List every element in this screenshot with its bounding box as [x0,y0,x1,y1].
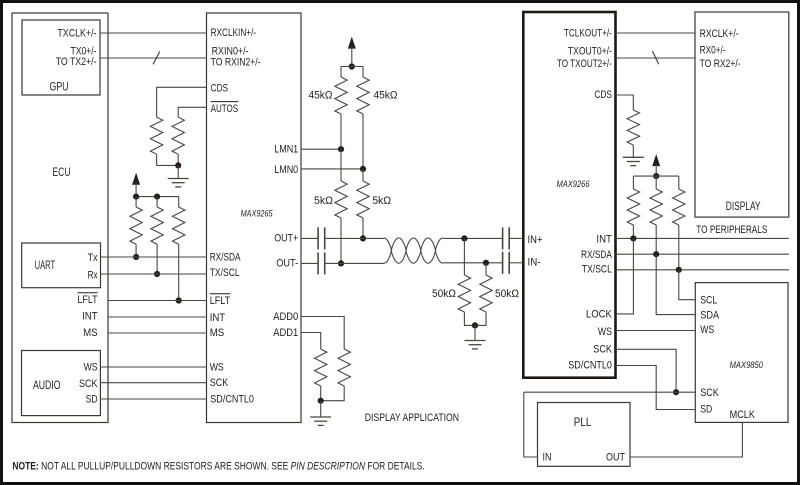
svg-text:DISPLAY APPLICATION: DISPLAY APPLICATION [365,412,459,424]
pin TXOUT0+/- TO TXOUT2+/- [557,46,612,71]
wire LFLT [108,300,207,302]
svg-text:LFLT: LFLT [77,294,97,306]
svg-text:MAX9266: MAX9266 [557,179,591,189]
wire SCK [100,382,206,384]
wire MS [108,332,207,334]
wire CDS to pulldown [157,87,207,117]
svg-text:MS: MS [210,327,225,339]
resistor ADD1 pulldown [315,349,327,401]
wire ADD0 to pulldown [301,317,344,350]
junction INT pullup/LOCK [630,235,636,241]
wire to ground G2 [474,325,476,340]
svg-text:OUT-: OUT- [276,258,298,270]
svg-text:MAX9265: MAX9265 [241,208,274,218]
junction 50k common [472,322,478,328]
wire ground rail CDS/AUTOS [157,164,179,166]
svg-text:RXIN0+/-: RXIN0+/- [212,45,249,57]
junction LFLT pullup on LFLT wire [176,297,182,303]
wire INT to peripherals [616,237,789,239]
wire INT [108,316,207,318]
wire PLL OUT to MCLK [630,422,742,457]
wire OUT+ to coupling cap [301,237,318,239]
wire TXOUT0-TXOUT2 bus to RX0-RX2 [616,51,696,64]
svg-text:TO RX2+/-: TO RX2+/- [700,58,741,70]
svg-text:SCK: SCK [79,378,98,390]
ground G1 [168,179,189,187]
wire twisted pair to IN+ cap [443,237,503,239]
pin AUTOS [211,102,239,115]
svg-text:50kΩ: 50kΩ [432,288,456,300]
pin TX0+/- TO TX2+/- [56,45,97,67]
svg-text:GPU: GPU [50,81,69,93]
junction LMN1 at 45k left [338,146,344,152]
svg-text:SCK: SCK [700,387,719,399]
block DISPLAY [695,12,789,217]
resistor INT pullup [627,189,639,238]
capacitor IN+ coupling [503,227,510,249]
junction 5k left on OUT- wire [338,260,344,266]
wire SCK bus to PLL IN [524,392,538,457]
svg-text:AUDIO: AUDIO [33,380,61,392]
wire twisted pair to IN- cap [443,262,503,264]
svg-text:IN-: IN- [528,257,541,269]
wire AUTOS to pulldown [178,107,206,117]
wire Rx to TX/SCL [101,273,207,275]
svg-text:LMN1: LMN1 [274,144,298,156]
svg-text:RXCLK+/-: RXCLK+/- [700,28,739,40]
capacitor OUT+ coupling [318,227,325,249]
svg-text:INT: INT [210,312,226,324]
svg-text:Rx: Rx [88,270,98,282]
svg-text:ECU: ECU [53,167,71,179]
svg-text:SCK: SCK [210,377,229,389]
block ECU [12,13,108,423]
junction IN+ at 50k left [461,235,467,241]
wire LOCK to INT junction [616,238,634,314]
resistor CDS pulldown [150,117,162,154]
svg-text:45kΩ: 45kΩ [309,90,333,102]
resistor Tx pullup [130,197,142,257]
junction Tx pullup on RX/SDA wire [133,254,139,260]
wire TX0-TX2 bus to RXIN0-RXIN2 [100,52,207,65]
svg-text:OUT: OUT [606,452,625,464]
deserializer U2 MAX9266 [523,12,615,378]
svg-text:ADD0: ADD0 [273,311,298,323]
wire CDS resistor to ground rail [156,154,158,165]
svg-text:OUT+: OUT+ [274,233,298,245]
svg-text:LFLT: LFLT [210,295,231,307]
junction RX/SDA pullup/SDA drop [653,251,659,257]
wire CDS2 to pulldown [616,95,634,110]
wire TCLKOUT to RXCLK [616,32,696,34]
svg-text:SCL: SCL [700,294,717,306]
svg-text:SD/CNTL0: SD/CNTL0 [210,394,254,406]
block PLL [538,403,631,467]
svg-text:WS: WS [700,324,714,336]
wire WS [100,366,206,368]
svg-text:IN: IN [543,452,552,464]
ground G4 [310,417,331,425]
capacitor IN- coupling [503,252,510,274]
svg-text:DISPLAY: DISPLAY [726,201,761,213]
wire WS link [616,330,696,332]
resistor R 45k right [357,77,369,169]
block AUDIO [22,351,101,416]
svg-text:MCLK: MCLK [730,409,756,421]
wire SCK to SCK bus [616,349,677,392]
resistor CDS pulldown (MAX9266) [627,110,639,157]
junction ADD pulldown common [318,398,324,404]
svg-text:PLL: PLL [574,417,592,429]
ground G3 [623,157,644,165]
junction V2 rail [349,63,355,69]
svg-text:INT: INT [82,311,98,323]
resistor LFLT pullup [173,197,185,301]
audio DAC U3 MAX9850 [695,283,788,423]
svg-text:SD: SD [700,404,712,416]
wire OUT+ cap to twisted pair [325,237,384,239]
twisted pair cable [384,238,443,263]
wire AUTOS resistor to ground rail [177,154,179,165]
svg-text:NOTE: NOT ALL PULLUP/PULLDOWN: NOTE: NOT ALL PULLUP/PULLDOWN RESISTORS … [12,460,424,472]
junction CDS/AUTOS ground [175,162,181,168]
junction LMN0 at 45k right [360,166,366,172]
svg-text:TO RXIN2+/-: TO RXIN2+/- [211,57,261,69]
svg-text:INT: INT [596,233,612,245]
wire pullup rail MAX9266 side [633,176,678,189]
wire pullup rail ECU side [136,196,179,198]
svg-text:CDS: CDS [211,83,229,95]
junction rail at Rx pullup [154,194,160,200]
power arrow V3 [652,154,660,176]
svg-text:TX/SCL: TX/SCL [582,264,612,276]
wire LMN0 [301,168,363,170]
block UART [22,243,101,288]
capacitor OUT- coupling [318,252,325,274]
power arrow V2 [348,37,356,67]
wire LMN1 [301,148,341,150]
svg-text:45kΩ: 45kΩ [374,90,398,102]
svg-text:UART: UART [35,260,56,272]
junction SCK bus [673,389,679,395]
svg-text:RX/SDA: RX/SDA [581,249,612,261]
svg-text:WS: WS [598,326,612,338]
wire OUT- cap to twisted pair [325,262,384,264]
junction TX/SCL pullup/SCL drop [676,267,682,273]
svg-text:LOCK: LOCK [586,309,613,321]
wire TXCLK to RXCLKIN [100,32,207,34]
junction IN- at 50k right [483,260,489,266]
svg-text:TXCLK+/-: TXCLK+/- [57,28,96,40]
ground G2 [465,341,486,349]
resistor R 50k left [458,238,475,325]
resistor R 50k right [475,263,492,326]
block GPU [22,20,100,95]
svg-text:WS: WS [210,362,224,374]
svg-text:Tx: Tx [88,252,98,264]
resistor ADD0 pulldown [321,349,351,401]
svg-text:5kΩ: 5kΩ [372,195,391,207]
wire to ground G4 [320,401,322,417]
resistor R 45k left [335,77,347,149]
wire TX/SCL to peripherals [616,269,789,271]
svg-text:TCLKOUT+/-: TCLKOUT+/- [564,27,612,39]
wire 45k rail [341,67,363,78]
junction V3 rail [653,173,659,179]
junction rail at Tx pullup [133,194,139,200]
wire SD to SD/CNTL0 [100,398,206,400]
svg-text:5kΩ: 5kΩ [314,195,333,207]
pin RXIN0+/- TO RXIN2+/- [211,45,261,68]
power arrow V1 [132,173,140,197]
wire SCK bus to MAX9850 SCK [524,391,696,393]
svg-text:MS: MS [83,327,98,339]
wire ADD1 to pulldown [301,333,321,350]
svg-text:TO TX2+/-: TO TX2+/- [56,56,97,68]
resistor Rx pullup [151,197,163,274]
svg-text:WS: WS [84,361,98,373]
svg-text:SD/CNTL0: SD/CNTL0 [568,359,612,371]
svg-text:TO TXOUT2+/-: TO TXOUT2+/- [557,58,612,70]
svg-text:RX/SDA: RX/SDA [210,252,241,264]
wire RX/SDA to MAX9850 SDA [656,254,695,314]
svg-text:SCK: SCK [593,344,612,356]
svg-text:50kΩ: 50kΩ [495,288,519,300]
svg-text:ADD1: ADD1 [273,327,298,339]
wire SD/CNTL0 to MAX9850 SD [616,366,696,410]
resistor TX/SCL pullup [673,189,685,270]
pin LFLT (MAX9265) [210,294,231,307]
wire TX/SCL to MAX9850 SCL [679,270,696,300]
svg-text:SDA: SDA [700,309,720,321]
wire IN+ cap to MAX9266 [509,237,523,239]
pin RX0+/- TO RX2+/- [700,44,741,70]
svg-text:MAX9850: MAX9850 [730,360,764,370]
svg-text:RX0+/-: RX0+/- [700,44,726,56]
svg-text:IN+: IN+ [528,234,543,246]
junction 5k right on OUT+ wire [360,235,366,241]
pin LFLT (ECU) [77,293,97,306]
svg-text:SD: SD [86,393,98,405]
svg-text:LMN0: LMN0 [274,164,298,176]
resistor AUTOS pulldown [172,117,184,154]
junction Rx pullup on TX/SCL wire [154,271,160,277]
svg-text:TO PERIPHERALS: TO PERIPHERALS [696,224,767,236]
svg-text:AUTOS: AUTOS [211,103,239,115]
resistor RX/SDA pullup [650,176,662,254]
serializer U1 MAX9265 [207,13,302,423]
svg-text:CDS: CDS [594,89,612,101]
wire to ground G1 [177,165,179,178]
svg-text:RXCLKIN+/-: RXCLKIN+/- [211,27,257,39]
wire RX/SDA to peripherals [616,253,789,255]
svg-text:TX/SCL: TX/SCL [210,267,240,279]
wire Tx to RX/SDA [101,256,207,258]
resistor R 5k right [357,169,369,239]
resistor R 5k left [335,149,347,263]
wire OUT- to coupling cap [301,262,318,264]
svg-text:TXOUT0+/-: TXOUT0+/- [568,46,612,58]
wire IN- cap to MAX9266 [509,262,523,264]
